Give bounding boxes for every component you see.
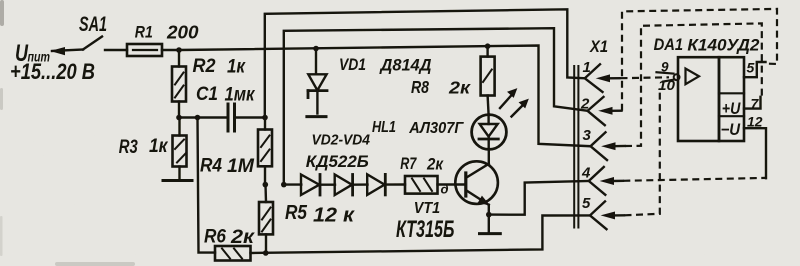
wire B: diode node to X1 pin2 (284, 28, 588, 184)
ground bar VD1 (307, 115, 326, 118)
svg-text:4: 4 (581, 165, 591, 182)
X1 pin 1 socket (585, 64, 603, 92)
svg-text:+15...20 В: +15...20 В (10, 59, 95, 84)
dashed pin2 to DA1 pin5 (622, 9, 777, 111)
wire: +U rail (162, 46, 590, 147)
svg-text:К140УД2: К140УД2 (687, 35, 760, 54)
svg-text:+U: +U (722, 100, 741, 118)
dashed cable wires (621, 9, 778, 215)
resistor R2 (178, 50, 180, 67)
svg-text:2: 2 (580, 96, 590, 113)
svg-text:2к: 2к (230, 227, 256, 248)
resistor R1 (127, 44, 162, 56)
node C1 right / R4 top (262, 115, 268, 121)
svg-text:5: 5 (747, 60, 755, 76)
svg-text:1к: 1к (227, 57, 246, 78)
svg-text:R7: R7 (400, 154, 417, 173)
op-amp DA1 body (678, 57, 719, 141)
svg-text:R4: R4 (200, 156, 222, 177)
svg-text:12 к: 12 к (313, 205, 355, 227)
svg-text:д: д (441, 182, 449, 197)
ground bar VT1 (480, 232, 501, 235)
scan artifacts (0, 0, 135, 266)
inversion circle (674, 74, 680, 80)
svg-text:SA1: SA1 (79, 12, 107, 36)
switch SA1 (83, 37, 102, 50)
svg-text:VD2-VD4: VD2-VD4 (312, 131, 371, 148)
node C1 left (176, 115, 182, 121)
svg-text:12: 12 (747, 114, 763, 130)
svg-text:1мк: 1мк (225, 85, 256, 106)
node: VD1 top (313, 46, 319, 52)
svg-text:R2: R2 (193, 56, 216, 77)
dashed pin5 riser (625, 88, 660, 215)
svg-text:R3: R3 (119, 137, 138, 158)
svg-text:−U: −U (721, 121, 741, 139)
svg-text:R5: R5 (285, 202, 308, 224)
svg-text:10: 10 (658, 78, 676, 93)
connector X1 double bar (573, 66, 575, 228)
wire A: C1/R4 node to X1 pin1 (265, 9, 585, 117)
dashed pin3 to DA1 pin7 (625, 23, 762, 146)
diode row wire (284, 183, 302, 185)
X1 pin 5 socket (590, 201, 607, 229)
diode VD4 (367, 174, 384, 195)
svg-text:2к: 2к (448, 78, 471, 98)
svg-text:2к: 2к (426, 154, 444, 173)
svg-text:АЛ307Г: АЛ307Г (408, 120, 464, 137)
resistor R6 (215, 246, 251, 261)
wire row y=117 with C1 (179, 116, 227, 118)
svg-text:DA1: DA1 (654, 35, 684, 54)
pin 5 stub (744, 62, 766, 77)
svg-text:1М: 1М (227, 156, 255, 177)
X1 pin 2 socket (588, 97, 605, 125)
ground bar R3 (163, 179, 192, 182)
LED HL1 (472, 115, 507, 150)
svg-text:VD1: VD1 (339, 56, 366, 74)
supply input arrow (52, 50, 83, 52)
node: R8 top (485, 43, 491, 49)
dashed pin4 to DA1 pin12 (623, 178, 766, 181)
svg-text:C1: C1 (196, 84, 218, 105)
node diode row left (263, 182, 269, 188)
LED arrows (500, 94, 513, 109)
X1 pin 3 socket (591, 132, 608, 160)
diode VD2 (301, 175, 319, 196)
svg-text:200: 200 (166, 22, 199, 42)
svg-text:VT1: VT1 (414, 200, 440, 217)
node: R1/R2 (176, 47, 182, 53)
node wire B bottom (281, 182, 287, 188)
svg-text:9: 9 (661, 60, 669, 75)
resistor R8 (486, 46, 488, 56)
svg-text:3: 3 (583, 127, 592, 144)
node emitter (486, 212, 492, 218)
svg-text:R6: R6 (204, 227, 226, 248)
node left drop (195, 115, 201, 121)
svg-text:КТ315Б: КТ315Б (396, 216, 454, 243)
svg-text:HL1: HL1 (372, 119, 396, 136)
wire left drop to bottom rail (198, 118, 216, 253)
pin 10 (663, 80, 675, 82)
diode VD3 (335, 175, 352, 196)
resistor R5 (265, 234, 267, 253)
pin 12 stub (744, 128, 766, 178)
pin 7 stub (744, 97, 761, 109)
node R5 bottom (263, 250, 269, 256)
svg-text:X1: X1 (589, 37, 608, 56)
wire emitter to X1 pin4 (489, 181, 589, 215)
capacitor C1 (227, 104, 230, 131)
X1 pin 4 socket (589, 167, 606, 195)
svg-text:5: 5 (582, 195, 591, 212)
svg-text:R1: R1 (135, 23, 153, 42)
pin 9 (657, 72, 674, 73)
resistor R3 (178, 118, 180, 136)
zener VD1 (315, 49, 317, 75)
svg-text:1: 1 (583, 59, 591, 76)
bottom rail (251, 215, 591, 253)
svg-text:7: 7 (751, 96, 760, 112)
transistor VT1 (455, 161, 498, 204)
svg-text:Д814Д: Д814Д (379, 57, 432, 75)
dashed pin1 to DA1 inputs (621, 76, 670, 79)
svg-text:R8: R8 (411, 77, 429, 97)
svg-text:1к: 1к (149, 136, 169, 157)
resistor R7 (405, 176, 438, 194)
resistor R4 (264, 118, 266, 130)
svg-text:КД522Б: КД522Б (306, 153, 369, 171)
